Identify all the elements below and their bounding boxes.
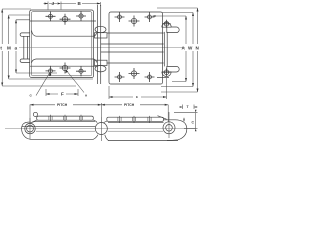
svg-text:H: H [85,93,87,97]
hole R3 [145,12,155,22]
B arrows [97,3,101,5]
right top plate bar (side view) [107,117,164,121]
dim E (under right plate) [109,78,167,99]
mid joint lower curves [94,135,98,139]
attachment plate (left link) [30,10,94,78]
left bushing circle [25,123,35,133]
pin head ear on left bar [33,112,37,116]
C small arrow [183,118,185,122]
dim J line [44,3,58,5]
clevis end bar bottom-left [20,59,30,62]
bar left slope [32,120,37,122]
bolt hole edges L3 [79,116,82,120]
pitch dim line 1 [30,104,101,106]
clevis pin lines left [23,36,25,59]
bolt hole line L3 [80,115,82,122]
right bracket 3 (outer) [157,8,198,92]
right bracket 1 (inner) [153,16,187,82]
left top plate bar (side view) [37,116,94,120]
E arrows [109,96,113,98]
left bracket arrows [1,9,3,13]
left link sidebar bottom edge [31,138,94,140]
right bracket arrows [185,16,187,20]
attachment plate (right link) [109,12,163,84]
sidebar top (right link, plan) [107,32,164,34]
bolt hole edges R2 [132,117,135,121]
barrel pin verticals [97,5,99,84]
sidebar bottom (left link, plan) [32,59,97,63]
J arrows [45,3,49,5]
left joint vertical centerline [29,118,31,139]
right pin circle [166,125,173,132]
svg-text:A: A [182,46,186,51]
clevis pin end circle top [162,20,170,28]
left link sidebar top edge [32,121,95,122]
bolt hole edges R1 [118,117,121,121]
pitch extension right [167,105,169,122]
clevis end bar top-left [20,33,30,36]
right link sidebar top edge [108,122,164,124]
svg-text:F: F [61,92,64,97]
clevis pin lines right [163,32,165,67]
leader to bottom-right label [66,70,84,93]
left bracket 1 [2,9,76,86]
T arrows [180,106,183,108]
pitch extension mid [100,103,102,122]
svg-text:G: G [30,94,33,98]
svg-text:E: E [136,95,138,99]
clevis boss top [162,23,171,28]
right link clevis end outline (side) [164,120,187,141]
bolt hole line L2 [64,115,66,122]
hole L1 [46,11,56,21]
C dim extension top [174,112,198,114]
barrel joint between links [95,26,106,32]
bolt hole edges L1 [49,116,52,120]
hole R1 [115,12,125,22]
bolt hole line L1 [50,115,52,122]
C dim extension bottom [184,128,198,130]
svg-text:W: W [188,46,193,51]
bolt hole line R3 [149,116,151,123]
hole L3 [76,11,86,21]
right joint vertical centerline [168,112,170,138]
joint curve left bar to mid joint [93,120,97,122]
clevis end bar bottom-right [167,66,179,72]
right link sidebar bottom edge [108,140,178,142]
left pin circle [27,125,34,132]
bolt hole edges L2 [63,116,66,120]
sidebar top (left link, plan) [30,20,96,22]
pitch dim line 2 [101,104,168,106]
svg-text:T: T [187,105,190,109]
right bushing circle [163,122,175,134]
barrel line [36,130,163,132]
left bracket 3 [16,20,57,73]
svg-text:PITCH: PITCH [57,103,68,107]
clevis boss bottom [162,72,171,77]
hole L6 [76,66,86,76]
joint curve right bar to mid joint [103,121,106,123]
clevis end bar top-right [167,27,179,33]
left link wrap contour around left joint [22,122,32,139]
arrowheads [1,3,198,99]
svg-text:C: C [192,121,195,125]
bolt hole line R1 [119,116,121,123]
chain centerline (plan view) [19,47,185,49]
left bracket 2 [9,15,93,79]
sidebar bottom (right link, plan) [101,51,164,53]
plate inner bend line (left link) [31,12,91,76]
hole R6 [145,72,155,82]
hole R4 [115,72,125,82]
chain centerline bottom [5,128,196,130]
dim F [46,89,78,96]
clevis top slope [158,116,167,120]
C arrows [195,110,197,113]
F arrows [46,93,50,95]
svg-text:B: B [78,1,82,6]
right bracket 2 [161,13,193,87]
bolt hole edges R3 [148,117,151,121]
hole L4 [46,66,56,76]
pitch extension left [29,105,31,124]
svg-text:J: J [52,1,55,6]
svg-text:PITCH: PITCH [124,103,135,107]
mid bushing circle [95,123,107,135]
hole L2 [60,14,71,25]
svg-text:N: N [196,46,200,51]
bolt hole line R2 [133,116,135,123]
leader to bottom-left label [36,73,50,96]
svg-text:t: t [0,46,2,51]
hole R5 [129,68,140,79]
dim B line [61,3,100,5]
left link sidebar inner line [22,126,95,128]
svg-text:a: a [15,46,18,51]
mid joint vertical centerline [100,117,102,141]
clevis pin end circle bottom [162,68,170,76]
svg-text:M: M [7,46,11,51]
C dim line [195,113,197,129]
pitch arrows [30,104,34,106]
leader arrowheads [49,73,51,76]
vertical centerlines bottom view [30,103,198,141]
T dim [179,105,198,110]
hole L5 [60,63,71,74]
dimension labels [0,1,199,99]
clevis foot line [157,76,169,78]
hole R2 [129,16,140,27]
